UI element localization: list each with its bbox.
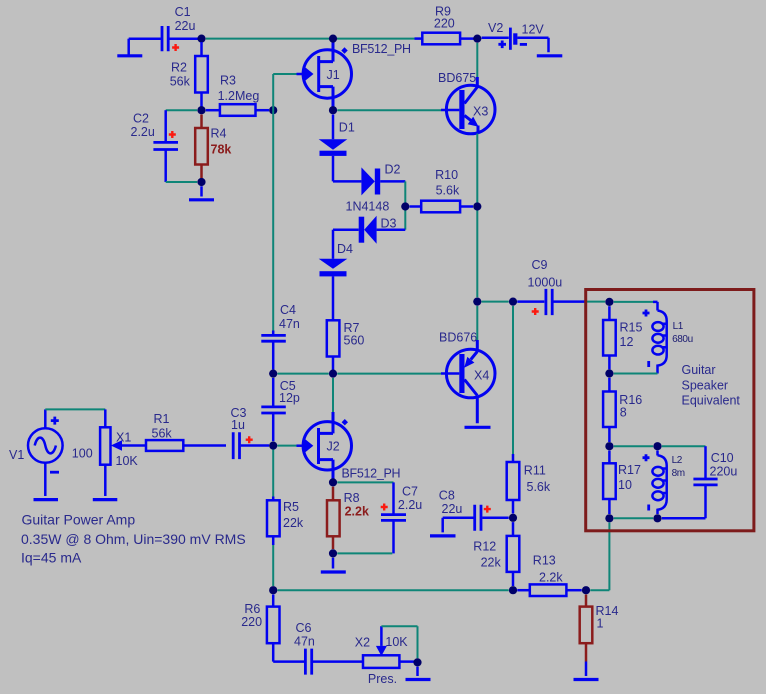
node — [509, 586, 517, 594]
svg-text:BF512_PH: BF512_PH — [342, 467, 401, 481]
ground — [321, 558, 346, 572]
wire — [482, 301, 509, 303]
svg-text:C1: C1 — [175, 5, 191, 19]
node — [605, 514, 613, 522]
resistor R11 — [507, 454, 551, 514]
svg-text:C6: C6 — [296, 621, 312, 635]
svg-text:1N4148: 1N4148 — [346, 200, 390, 214]
diode D3 — [333, 200, 405, 244]
svg-text:D3: D3 — [381, 217, 397, 231]
svg-text:R15: R15 — [620, 321, 643, 335]
svg-text:5.6k: 5.6k — [527, 480, 551, 494]
potentiometer X2 — [355, 626, 418, 686]
svg-text:R8: R8 — [344, 491, 360, 505]
node — [197, 35, 205, 43]
wire — [381, 626, 417, 658]
wire — [476, 306, 478, 340]
resistor R3 — [206, 74, 269, 116]
wire — [476, 43, 478, 77]
resistor R4 — [195, 115, 231, 179]
svg-text:1u: 1u — [231, 418, 245, 432]
node — [605, 298, 613, 306]
wire — [332, 378, 334, 412]
node — [509, 514, 517, 522]
node — [413, 658, 421, 666]
ground — [430, 534, 456, 537]
node — [329, 549, 337, 557]
resistor R7 — [327, 320, 365, 371]
node — [509, 298, 517, 306]
wire — [590, 523, 609, 591]
svg-text:0.35W @ 8 Ohm, Uin=390 mV RMS: 0.35W @ 8 Ohm, Uin=390 mV RMS — [21, 531, 246, 547]
svg-text:22k: 22k — [283, 516, 304, 530]
svg-text:X4: X4 — [474, 369, 489, 383]
svg-text:C4: C4 — [280, 303, 296, 317]
npn X3 BD675 — [438, 71, 495, 134]
svg-text:12: 12 — [620, 335, 634, 349]
wire — [614, 517, 654, 519]
wire — [476, 134, 478, 298]
jfet J2 — [297, 412, 401, 481]
ground — [465, 426, 491, 429]
svg-text:220: 220 — [241, 615, 262, 629]
capacitor C8 — [439, 489, 509, 533]
svg-text:Equivalent: Equivalent — [682, 394, 741, 408]
svg-text:Speaker: Speaker — [682, 379, 729, 393]
ground — [34, 498, 59, 501]
svg-text:78k: 78k — [211, 143, 232, 157]
svg-text:47n: 47n — [294, 635, 315, 649]
resistor R8 — [327, 487, 369, 549]
wire — [278, 445, 297, 447]
sine source V1 — [9, 409, 93, 496]
node — [269, 442, 277, 450]
wire — [206, 38, 415, 40]
wire — [129, 37, 161, 40]
svg-text:C7: C7 — [402, 485, 418, 499]
node — [329, 370, 337, 378]
resistor R14 — [580, 595, 619, 677]
wire — [587, 301, 606, 303]
svg-text:2.2u: 2.2u — [398, 498, 422, 512]
node — [269, 586, 277, 594]
svg-text:C8: C8 — [439, 489, 455, 503]
capacitor C6 — [294, 621, 363, 675]
capacitor C3 — [231, 406, 270, 459]
wire — [337, 109, 441, 111]
resistor R9 — [415, 5, 478, 45]
svg-text:22u: 22u — [175, 19, 196, 33]
svg-text:R5: R5 — [283, 500, 299, 514]
ground — [117, 39, 142, 56]
svg-text:2.2k: 2.2k — [539, 571, 563, 585]
capacitor C2 — [131, 110, 179, 182]
svg-text:L1: L1 — [673, 321, 684, 332]
resistor R10 — [410, 168, 473, 212]
resistor R6 — [241, 595, 304, 662]
node — [582, 586, 590, 594]
node — [269, 370, 277, 378]
resistor R16 — [603, 378, 642, 442]
svg-text:10K: 10K — [385, 635, 408, 649]
svg-text:X3: X3 — [473, 105, 488, 119]
svg-text:R13: R13 — [533, 554, 556, 568]
wire — [278, 373, 442, 375]
node — [329, 478, 337, 486]
speaker equivalent box — [586, 290, 754, 531]
resistor R2 — [170, 42, 208, 107]
svg-text:D2: D2 — [385, 163, 401, 177]
svg-text:2.2k: 2.2k — [345, 505, 369, 519]
svg-text:D1: D1 — [339, 121, 355, 135]
ground — [93, 498, 118, 501]
wire — [662, 445, 706, 447]
diode D4 — [319, 230, 353, 321]
ground — [189, 186, 214, 200]
pnp X4 BD676 — [439, 331, 495, 424]
svg-text:R1: R1 — [154, 412, 170, 426]
svg-text:100: 100 — [72, 447, 93, 461]
wire — [614, 373, 658, 375]
ground — [406, 667, 431, 680]
svg-text:X1: X1 — [116, 431, 131, 445]
svg-text:47n: 47n — [279, 317, 300, 331]
node — [269, 106, 277, 114]
svg-text:Pres.: Pres. — [368, 672, 397, 686]
node — [197, 106, 205, 114]
battery V2 — [482, 21, 549, 52]
svg-text:R3: R3 — [220, 74, 236, 88]
svg-text:X2: X2 — [355, 636, 370, 650]
resistor R12 — [473, 522, 519, 586]
svg-text:R2: R2 — [171, 61, 187, 75]
wire — [166, 181, 198, 183]
svg-text:12p: 12p — [279, 391, 300, 405]
inductor L2 — [643, 451, 685, 515]
svg-text:Guitar Power Amp: Guitar Power Amp — [22, 512, 136, 528]
wire — [337, 481, 393, 483]
svg-text:R11: R11 — [524, 464, 546, 478]
svg-text:56k: 56k — [170, 75, 191, 89]
svg-text:8: 8 — [620, 406, 627, 420]
capacitor C9 — [517, 258, 586, 315]
svg-text:1.2Meg: 1.2Meg — [218, 89, 260, 103]
svg-text:C10: C10 — [711, 451, 734, 465]
wire — [337, 552, 392, 554]
svg-text:560: 560 — [344, 334, 365, 348]
node — [329, 35, 337, 43]
wire bus — [278, 589, 509, 591]
svg-text:R4: R4 — [211, 127, 227, 141]
jfet J1 — [297, 40, 412, 108]
svg-text:56k: 56k — [152, 427, 173, 441]
svg-text:680u: 680u — [672, 334, 693, 345]
svg-text:R17: R17 — [618, 463, 641, 477]
wire — [614, 445, 654, 447]
diode D2 — [361, 163, 405, 196]
inductor L1 — [643, 302, 693, 374]
node — [197, 178, 205, 186]
wire — [404, 181, 406, 229]
node — [329, 106, 337, 114]
svg-text:C2: C2 — [133, 112, 149, 126]
wire — [614, 301, 653, 303]
svg-text:V2: V2 — [488, 21, 503, 35]
svg-text:10: 10 — [618, 478, 632, 492]
resistor R5 — [267, 450, 304, 587]
svg-text:1: 1 — [597, 617, 604, 631]
node — [473, 298, 481, 306]
node — [473, 202, 481, 210]
resistor R17 — [603, 451, 641, 515]
node — [653, 514, 661, 522]
svg-text:220u: 220u — [710, 465, 738, 479]
node — [473, 35, 481, 43]
node — [605, 442, 613, 450]
wire — [169, 37, 199, 40]
diode D1 — [319, 115, 362, 182]
potentiometer X1 — [100, 409, 146, 496]
node — [401, 202, 409, 210]
svg-text:V1: V1 — [9, 448, 24, 462]
wire — [166, 109, 198, 111]
ground — [537, 54, 563, 57]
wire — [45, 408, 105, 410]
svg-text:22u: 22u — [442, 502, 463, 516]
capacitor C5 — [261, 378, 300, 441]
resistor R1 — [146, 412, 226, 451]
svg-text:10K: 10K — [116, 454, 139, 468]
svg-text:BD675: BD675 — [438, 71, 476, 85]
wire — [512, 306, 514, 454]
svg-text:C9: C9 — [532, 258, 548, 272]
svg-text:8m: 8m — [672, 468, 685, 479]
svg-text:R10: R10 — [435, 168, 458, 182]
svg-text:L2: L2 — [672, 455, 683, 466]
capacitor C10 — [662, 446, 738, 518]
svg-text:R6: R6 — [244, 602, 260, 616]
capacitor C4 — [261, 303, 300, 370]
svg-text:BD676: BD676 — [439, 331, 477, 345]
svg-text:Guitar: Guitar — [682, 363, 716, 377]
resistor R15 — [603, 306, 642, 369]
node — [653, 442, 661, 450]
wire — [273, 74, 296, 331]
svg-text:12V: 12V — [522, 23, 545, 37]
svg-text:J1: J1 — [327, 68, 340, 82]
resistor R13 — [517, 554, 581, 597]
svg-text:Iq=45 mA: Iq=45 mA — [21, 550, 82, 566]
svg-text:BF512_PH: BF512_PH — [352, 42, 411, 56]
svg-text:2.2u: 2.2u — [131, 125, 155, 139]
svg-text:D4: D4 — [337, 242, 353, 256]
svg-text:1000u: 1000u — [528, 276, 563, 290]
svg-text:J2: J2 — [327, 440, 340, 454]
node — [605, 369, 613, 377]
svg-text:5.6k: 5.6k — [436, 184, 460, 198]
title text — [21, 512, 246, 566]
capacitor C7 — [381, 482, 423, 553]
capacitor C1 — [162, 5, 196, 51]
svg-text:R12: R12 — [473, 540, 496, 554]
svg-text:220: 220 — [434, 17, 455, 31]
svg-text:22k: 22k — [481, 556, 502, 570]
ground — [574, 678, 599, 681]
